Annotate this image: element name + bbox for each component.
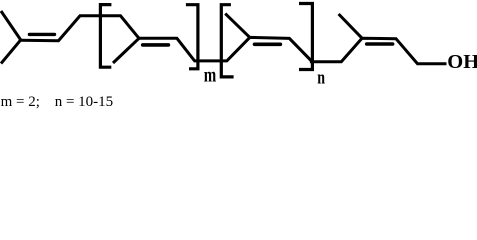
double bond second line, m repeat unit [143,43,169,47]
bracket close ] of n unit [299,4,312,70]
bracket open [ of n unit [221,5,233,77]
bracket open [ of m unit [100,5,111,68]
methyl CH3 upper-left of terminal isopropylidene [1,11,21,40]
double bond second line, terminal prenol unit [367,42,393,46]
methyl CH3 of n repeat unit [225,14,250,38]
svg-text:m: m [204,64,217,87]
methyl CH3 of m repeat unit [113,38,139,63]
bracket close ] of m unit [186,5,198,69]
methyl CH3 of terminal prenol unit [339,14,362,38]
methyl CH3 lower-left of terminal isopropylidene [1,40,21,64]
double bond second line, n repeat unit [255,42,281,46]
svg-text:n: n [317,66,325,88]
svg-text:OH: OH [447,51,477,73]
caption: m = 2; n = 10-15 [1,95,40,110]
wire: main carbon chain backbone [21,16,447,64]
double bond second line, terminal isopropylidene [29,33,54,36]
